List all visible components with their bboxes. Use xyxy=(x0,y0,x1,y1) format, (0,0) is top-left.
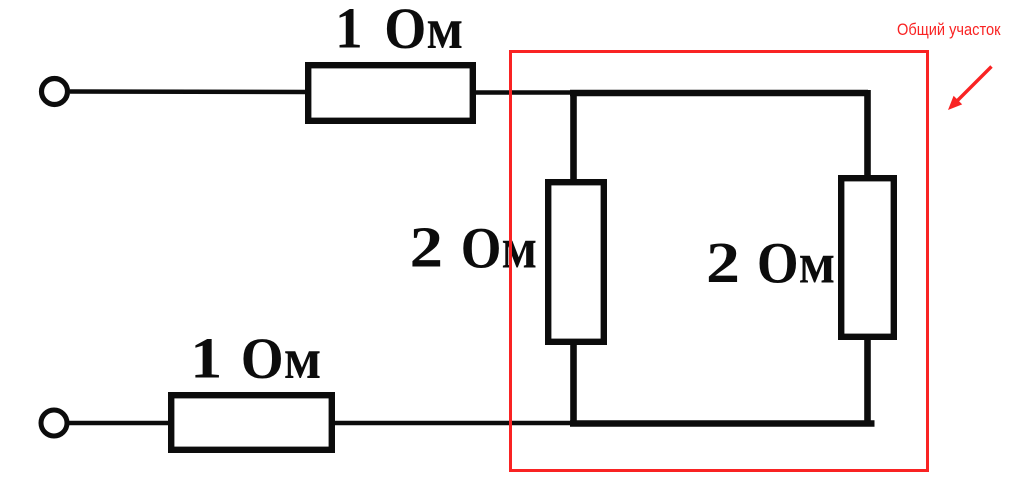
red arrow xyxy=(956,67,992,103)
terminal bottom-left xyxy=(41,410,67,436)
svg-text:Ом: Ом xyxy=(384,0,463,61)
red highlight rectangle (common section) xyxy=(511,52,928,471)
wire bottom-left xyxy=(68,421,172,425)
svg-text:Ом: Ом xyxy=(757,231,835,296)
wire top of parallel section xyxy=(570,90,868,97)
svg-text:1: 1 xyxy=(335,0,363,61)
resistor R1 1 Om (top horizontal) xyxy=(308,65,473,121)
resistor R4 2 Om (right vertical) xyxy=(841,178,894,337)
wire left vertical lower xyxy=(570,342,577,426)
wire left vertical upper xyxy=(570,90,577,182)
svg-text:2: 2 xyxy=(706,230,740,295)
wire right vertical lower xyxy=(864,337,871,426)
wire right vertical upper xyxy=(864,90,871,178)
wire bottom of parallel section xyxy=(570,420,875,427)
svg-text:Ом: Ом xyxy=(241,326,321,391)
svg-text:1: 1 xyxy=(190,326,222,391)
resistor R3 2 Om (left vertical) xyxy=(548,182,604,342)
wire bottom-mid xyxy=(333,421,575,425)
wire top-mid xyxy=(473,90,575,94)
wire top-left xyxy=(70,89,309,94)
svg-text:Общий участок: Общий участок xyxy=(897,20,1001,39)
terminal top-left xyxy=(42,79,68,105)
svg-text:2: 2 xyxy=(410,215,443,280)
svg-text:Ом: Ом xyxy=(461,216,537,281)
resistor R2 1 Om (bottom horizontal) xyxy=(171,395,332,450)
